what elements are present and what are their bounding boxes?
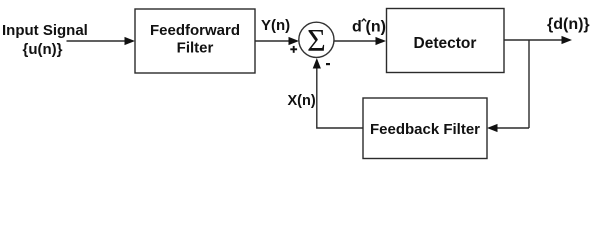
wire: feedback tap vertical drop <box>528 40 530 128</box>
block: Feedforward Filter <box>135 9 255 73</box>
wire: Feedforward Filter to summer <box>255 37 299 45</box>
minus sign at summer feedback input <box>326 63 330 65</box>
block: Detector <box>387 9 505 73</box>
wire: summer to Detector <box>335 37 387 45</box>
svg-text:(n): (n) <box>366 19 386 36</box>
svg-text:Detector: Detector <box>414 35 477 52</box>
svg-text:{d(n)}: {d(n)} <box>547 16 590 33</box>
svg-text:Σ: Σ <box>307 22 326 58</box>
label: d^(n) <box>352 19 386 36</box>
wire: Feedback Filter output to summer (left then up) <box>313 58 363 128</box>
wire: Detector output to {d(n)} arrow <box>504 36 572 44</box>
svg-text:X(n): X(n) <box>288 93 316 109</box>
svg-text:{u(n)}: {u(n)} <box>23 41 63 58</box>
plus sign at summer input <box>290 46 297 53</box>
wire: drop to Feedback Filter input arrow <box>487 124 529 132</box>
svg-text:Filter: Filter <box>177 40 214 57</box>
block: Feedback Filter <box>363 98 487 159</box>
svg-text:Feedback Filter: Feedback Filter <box>370 121 480 138</box>
svg-text:Y(n): Y(n) <box>261 17 290 34</box>
svg-text:Input Signal: Input Signal <box>2 22 88 39</box>
wire: input arrow into Feedforward Filter <box>67 37 136 45</box>
svg-text:Feedforward: Feedforward <box>150 22 240 39</box>
svg-text:d: d <box>352 19 362 36</box>
summer (sigma adder) <box>299 22 334 58</box>
